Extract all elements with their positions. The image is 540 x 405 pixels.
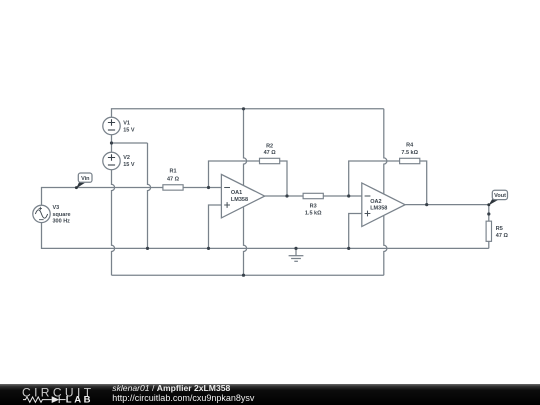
resistor R4 (400, 143, 420, 164)
svg-text:15 V: 15 V (123, 162, 135, 168)
node OA1 inverting input (207, 186, 210, 189)
svg-text:47 Ω: 47 Ω (264, 150, 277, 156)
node Vout / R5 top (487, 212, 490, 215)
svg-text:V1: V1 (123, 120, 130, 126)
svg-text:V2: V2 (123, 155, 130, 161)
svg-text:V3: V3 (53, 205, 60, 211)
resistor R2 (260, 143, 280, 163)
svg-text:LAB: LAB (66, 395, 93, 405)
svg-text:OA2: OA2 (370, 199, 381, 205)
svg-text:1.5 kΩ: 1.5 kΩ (305, 211, 322, 217)
svg-text:R5: R5 (496, 226, 503, 232)
svg-text:LM358: LM358 (231, 197, 248, 203)
wire OA2 V- stub to negative rail with hop (384, 216, 387, 276)
logo zigzag and diode (23, 396, 66, 403)
footer bar (0, 384, 540, 405)
resistor R5 (486, 221, 508, 241)
wire R1 to OA1 inverting input (184, 187, 222, 189)
node OA2 output / R4 (425, 203, 428, 206)
svg-text:Vin: Vin (81, 176, 90, 182)
wire R2 right down to output (280, 161, 287, 196)
svg-text:R3: R3 (310, 204, 317, 210)
node midpoint on ground rail (146, 247, 149, 250)
wire V2 negative column with hops (112, 170, 115, 276)
svg-text:R4: R4 (406, 143, 414, 149)
ground (289, 248, 304, 261)
node ground symbol (294, 247, 297, 250)
wire top rail (112, 109, 384, 118)
wire ground column with hop over signal (148, 143, 151, 248)
node Vin flag (75, 173, 92, 189)
resistor R1 (163, 169, 183, 191)
svg-text:47 Ω: 47 Ω (496, 233, 509, 239)
wire OA1 V- stub to negative rail with hop (244, 207, 247, 275)
voltage source V3 (33, 205, 71, 225)
svg-text:15 V: 15 V (123, 127, 135, 133)
node Vout flag (487, 190, 507, 206)
op-amp OA2 (362, 183, 405, 227)
wire R5 bottom to ground rail (488, 242, 490, 249)
node OA1 V- on negative rail (242, 274, 245, 277)
wire R4 right down to output (420, 161, 427, 205)
wire OA2 non-inverting input to ground rail (349, 214, 362, 249)
node OA2 + on ground rail (347, 247, 350, 250)
svg-text:sklenar01 / Ampflier 2xLM358: sklenar01 / Ampflier 2xLM358 (112, 383, 230, 393)
wire negative rail (112, 274, 384, 276)
svg-text:LM358: LM358 (370, 206, 387, 212)
svg-text:square: square (53, 212, 71, 218)
op-amp OA1 (221, 174, 264, 218)
wire R3 to OA2 inverting input (323, 195, 362, 197)
wire OA1 non-inverting input to ground rail (209, 205, 222, 248)
wire ground rail (42, 223, 489, 249)
wire OA2 V+ stub with hop over R4 wire (384, 109, 387, 194)
resistor R3 (303, 193, 323, 216)
svg-text:http://circuitlab.com/cxu9npka: http://circuitlab.com/cxu9npkan8ysv (112, 393, 255, 403)
node V1-V2 midpoint (110, 141, 113, 144)
node top rail / OA1 V+ (242, 107, 245, 110)
wire V1-V2 link (111, 135, 113, 153)
svg-text:7.5 kΩ: 7.5 kΩ (401, 150, 418, 156)
svg-text:Vout: Vout (494, 193, 506, 199)
wire V3 to signal line (42, 188, 163, 206)
node OA1 + on ground rail (207, 247, 210, 250)
node OA2 inverting input (347, 194, 350, 197)
wire midpoint to ground column (112, 142, 148, 144)
svg-text:R2: R2 (266, 143, 273, 149)
wire OA1 V+ stub with hop over R2 wire (244, 109, 247, 186)
svg-text:R1: R1 (169, 169, 176, 175)
svg-text:OA1: OA1 (231, 190, 242, 196)
wire OA2 feedback node up to R4 (349, 161, 400, 196)
wire OA2 output to Vout and R5 (405, 205, 489, 221)
svg-text:300 Hz: 300 Hz (53, 219, 71, 225)
node OA1 output / R2 (285, 194, 288, 197)
wire OA1 output to R3 (265, 195, 303, 197)
svg-text:47 Ω: 47 Ω (167, 177, 180, 183)
wire feedback node up to R2 (209, 161, 260, 188)
voltage source V2 (103, 152, 135, 169)
voltage source V1 (103, 117, 135, 134)
